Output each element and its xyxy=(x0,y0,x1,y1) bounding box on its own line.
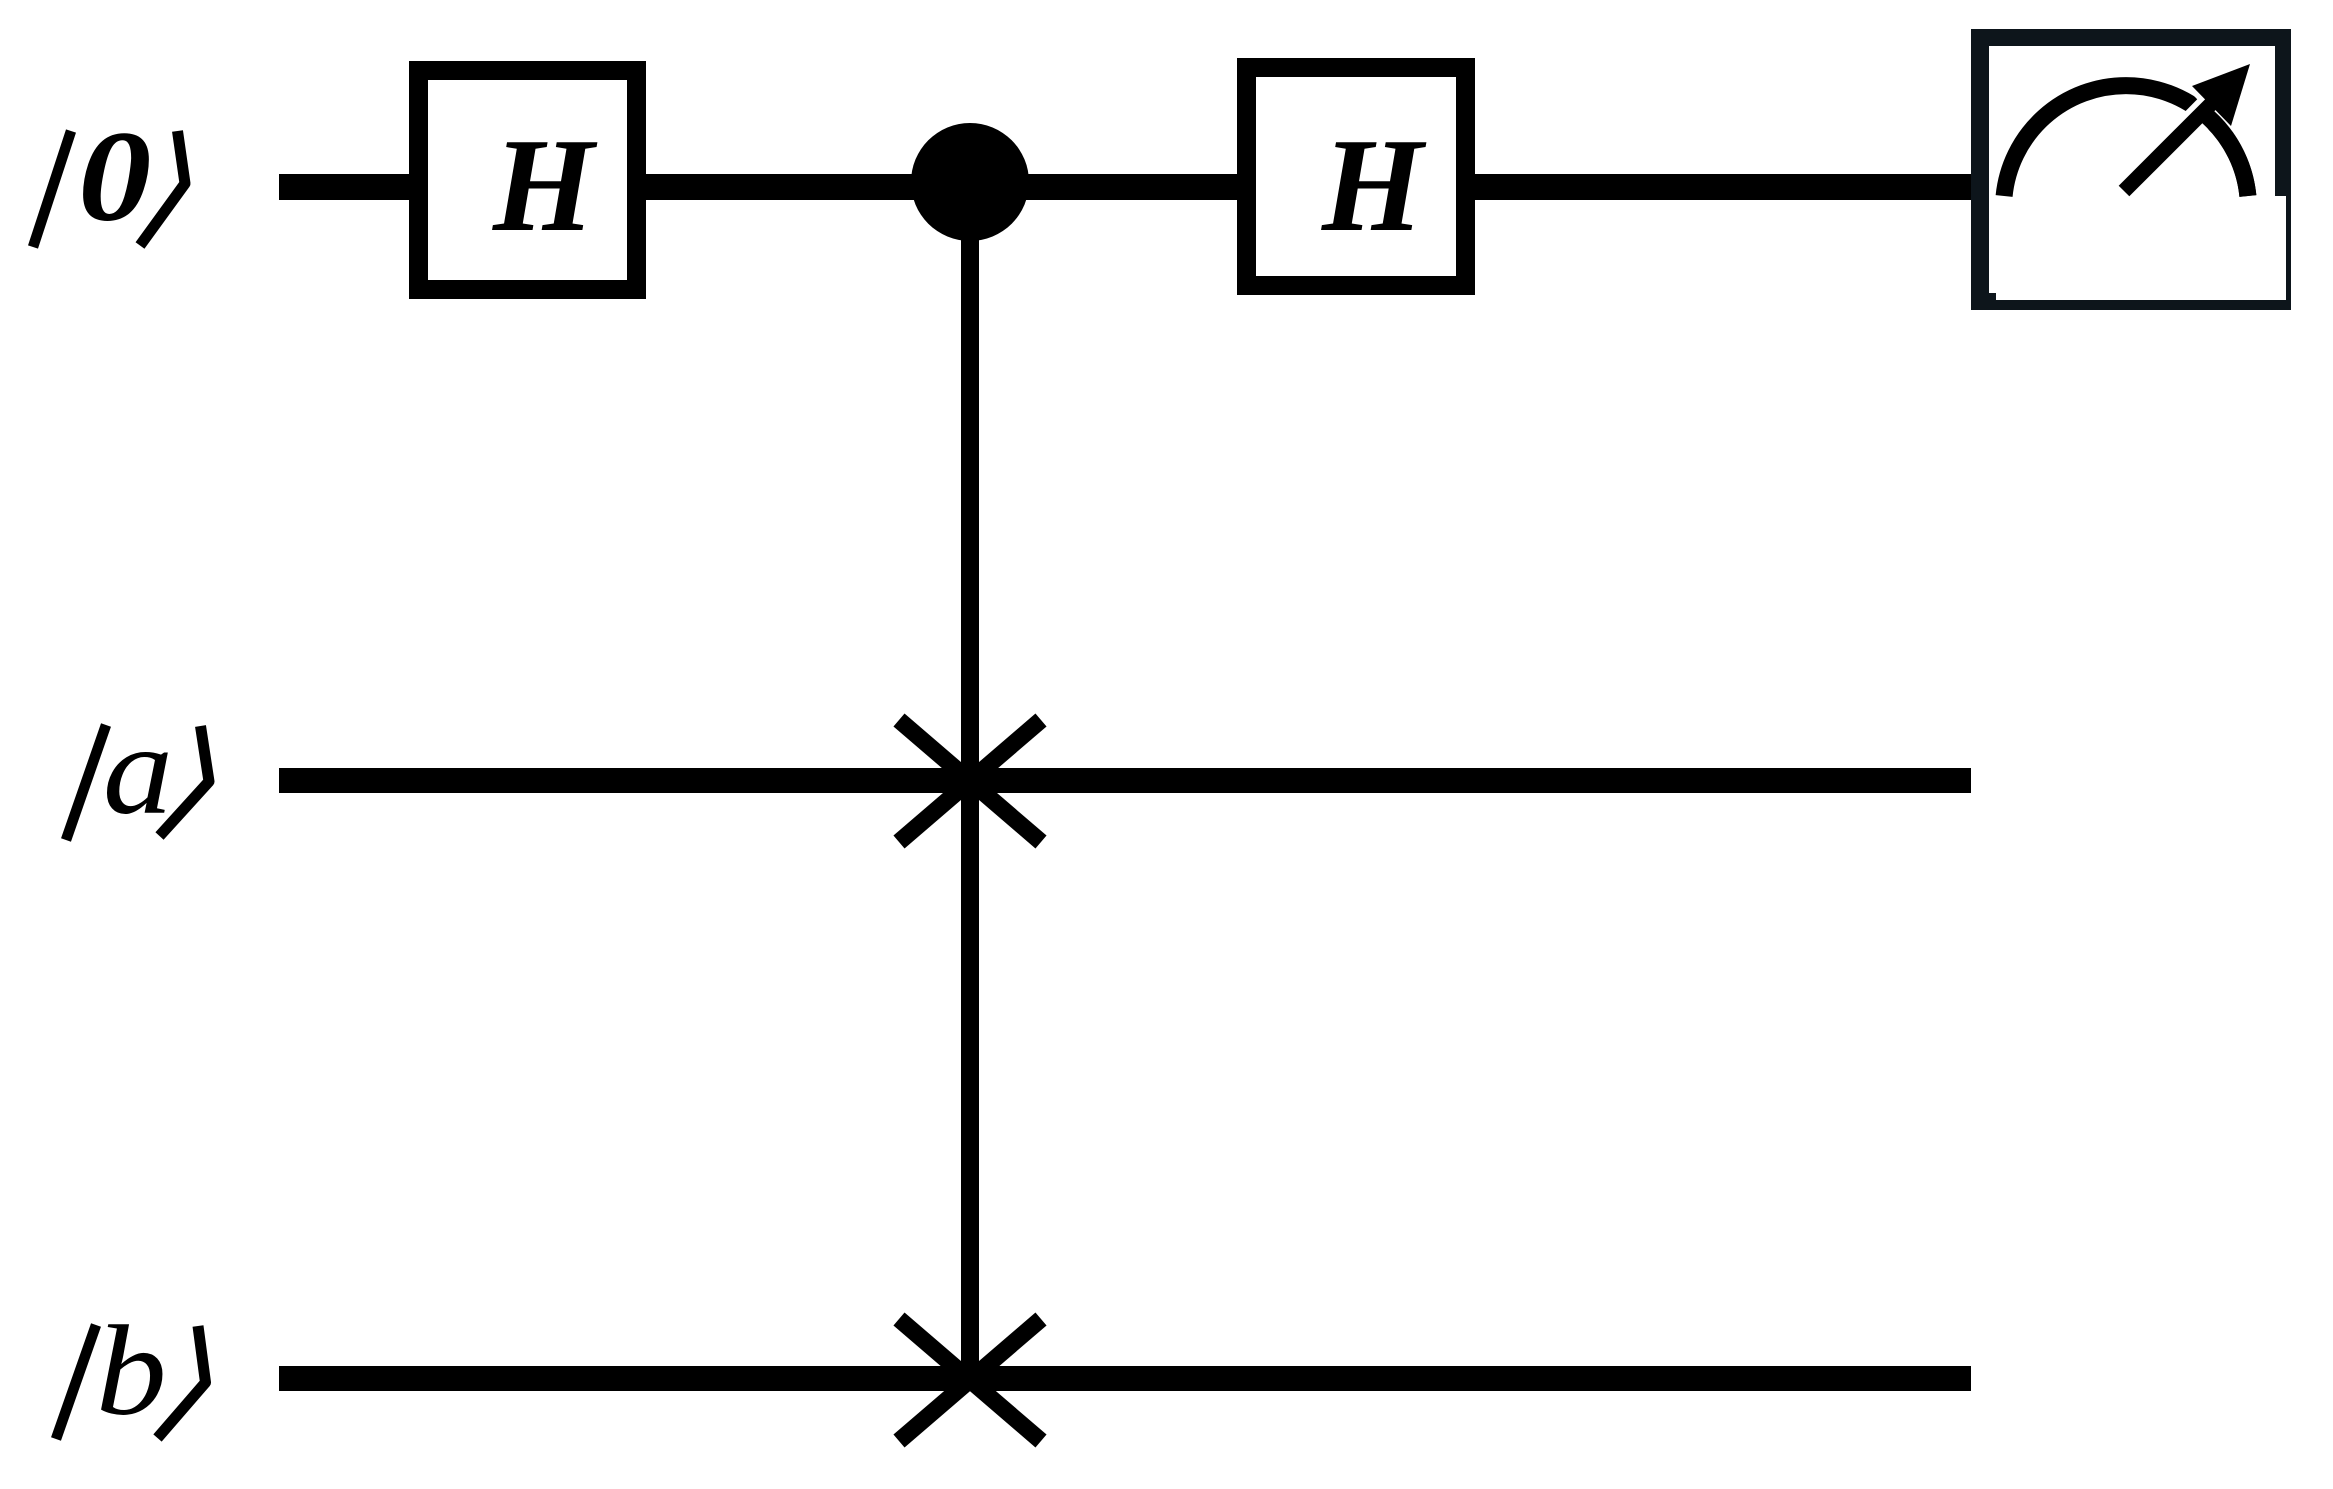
svg-text:0: 0 xyxy=(78,104,151,248)
gate H1 label xyxy=(492,110,598,259)
node label keta bar xyxy=(66,725,106,840)
wire qb (|b>) xyxy=(279,1366,1971,1391)
meter gauge arc right limb over needle xyxy=(2203,112,2248,196)
wire q0 (ancilla |0>) xyxy=(279,174,1971,200)
node label ket0 digit xyxy=(78,104,151,248)
meter needle white halo xyxy=(2122,104,2213,196)
wire qa (|a>) xyxy=(279,768,1971,793)
swap X on wire a xyxy=(899,720,1041,842)
gate H2 box xyxy=(1247,68,1466,286)
svg-text:H: H xyxy=(1321,110,1427,259)
gate H1 box xyxy=(419,71,637,290)
swap X on wire b xyxy=(899,1319,1041,1441)
gate H2 label xyxy=(1321,110,1427,259)
node label keta letter xyxy=(103,699,173,841)
control dot xyxy=(911,123,1029,241)
meter needle shaft xyxy=(2124,103,2212,191)
wire vertical control line xyxy=(961,182,979,1380)
meter gauge arc xyxy=(2004,86,2248,196)
node label ketb letter xyxy=(96,1300,167,1443)
node label ket0 bar xyxy=(33,131,71,247)
svg-text:H: H xyxy=(492,110,598,259)
measurement meter M1 frame xyxy=(1971,29,2291,310)
node label ketb bar xyxy=(56,1325,96,1439)
meter needle arrowhead xyxy=(2192,64,2250,126)
node label keta rangle xyxy=(160,726,210,836)
svg-text:a: a xyxy=(103,699,173,841)
node label ketb rangle xyxy=(158,1326,206,1438)
svg-text:b: b xyxy=(96,1300,167,1443)
node label ket0 rangle xyxy=(140,131,185,246)
